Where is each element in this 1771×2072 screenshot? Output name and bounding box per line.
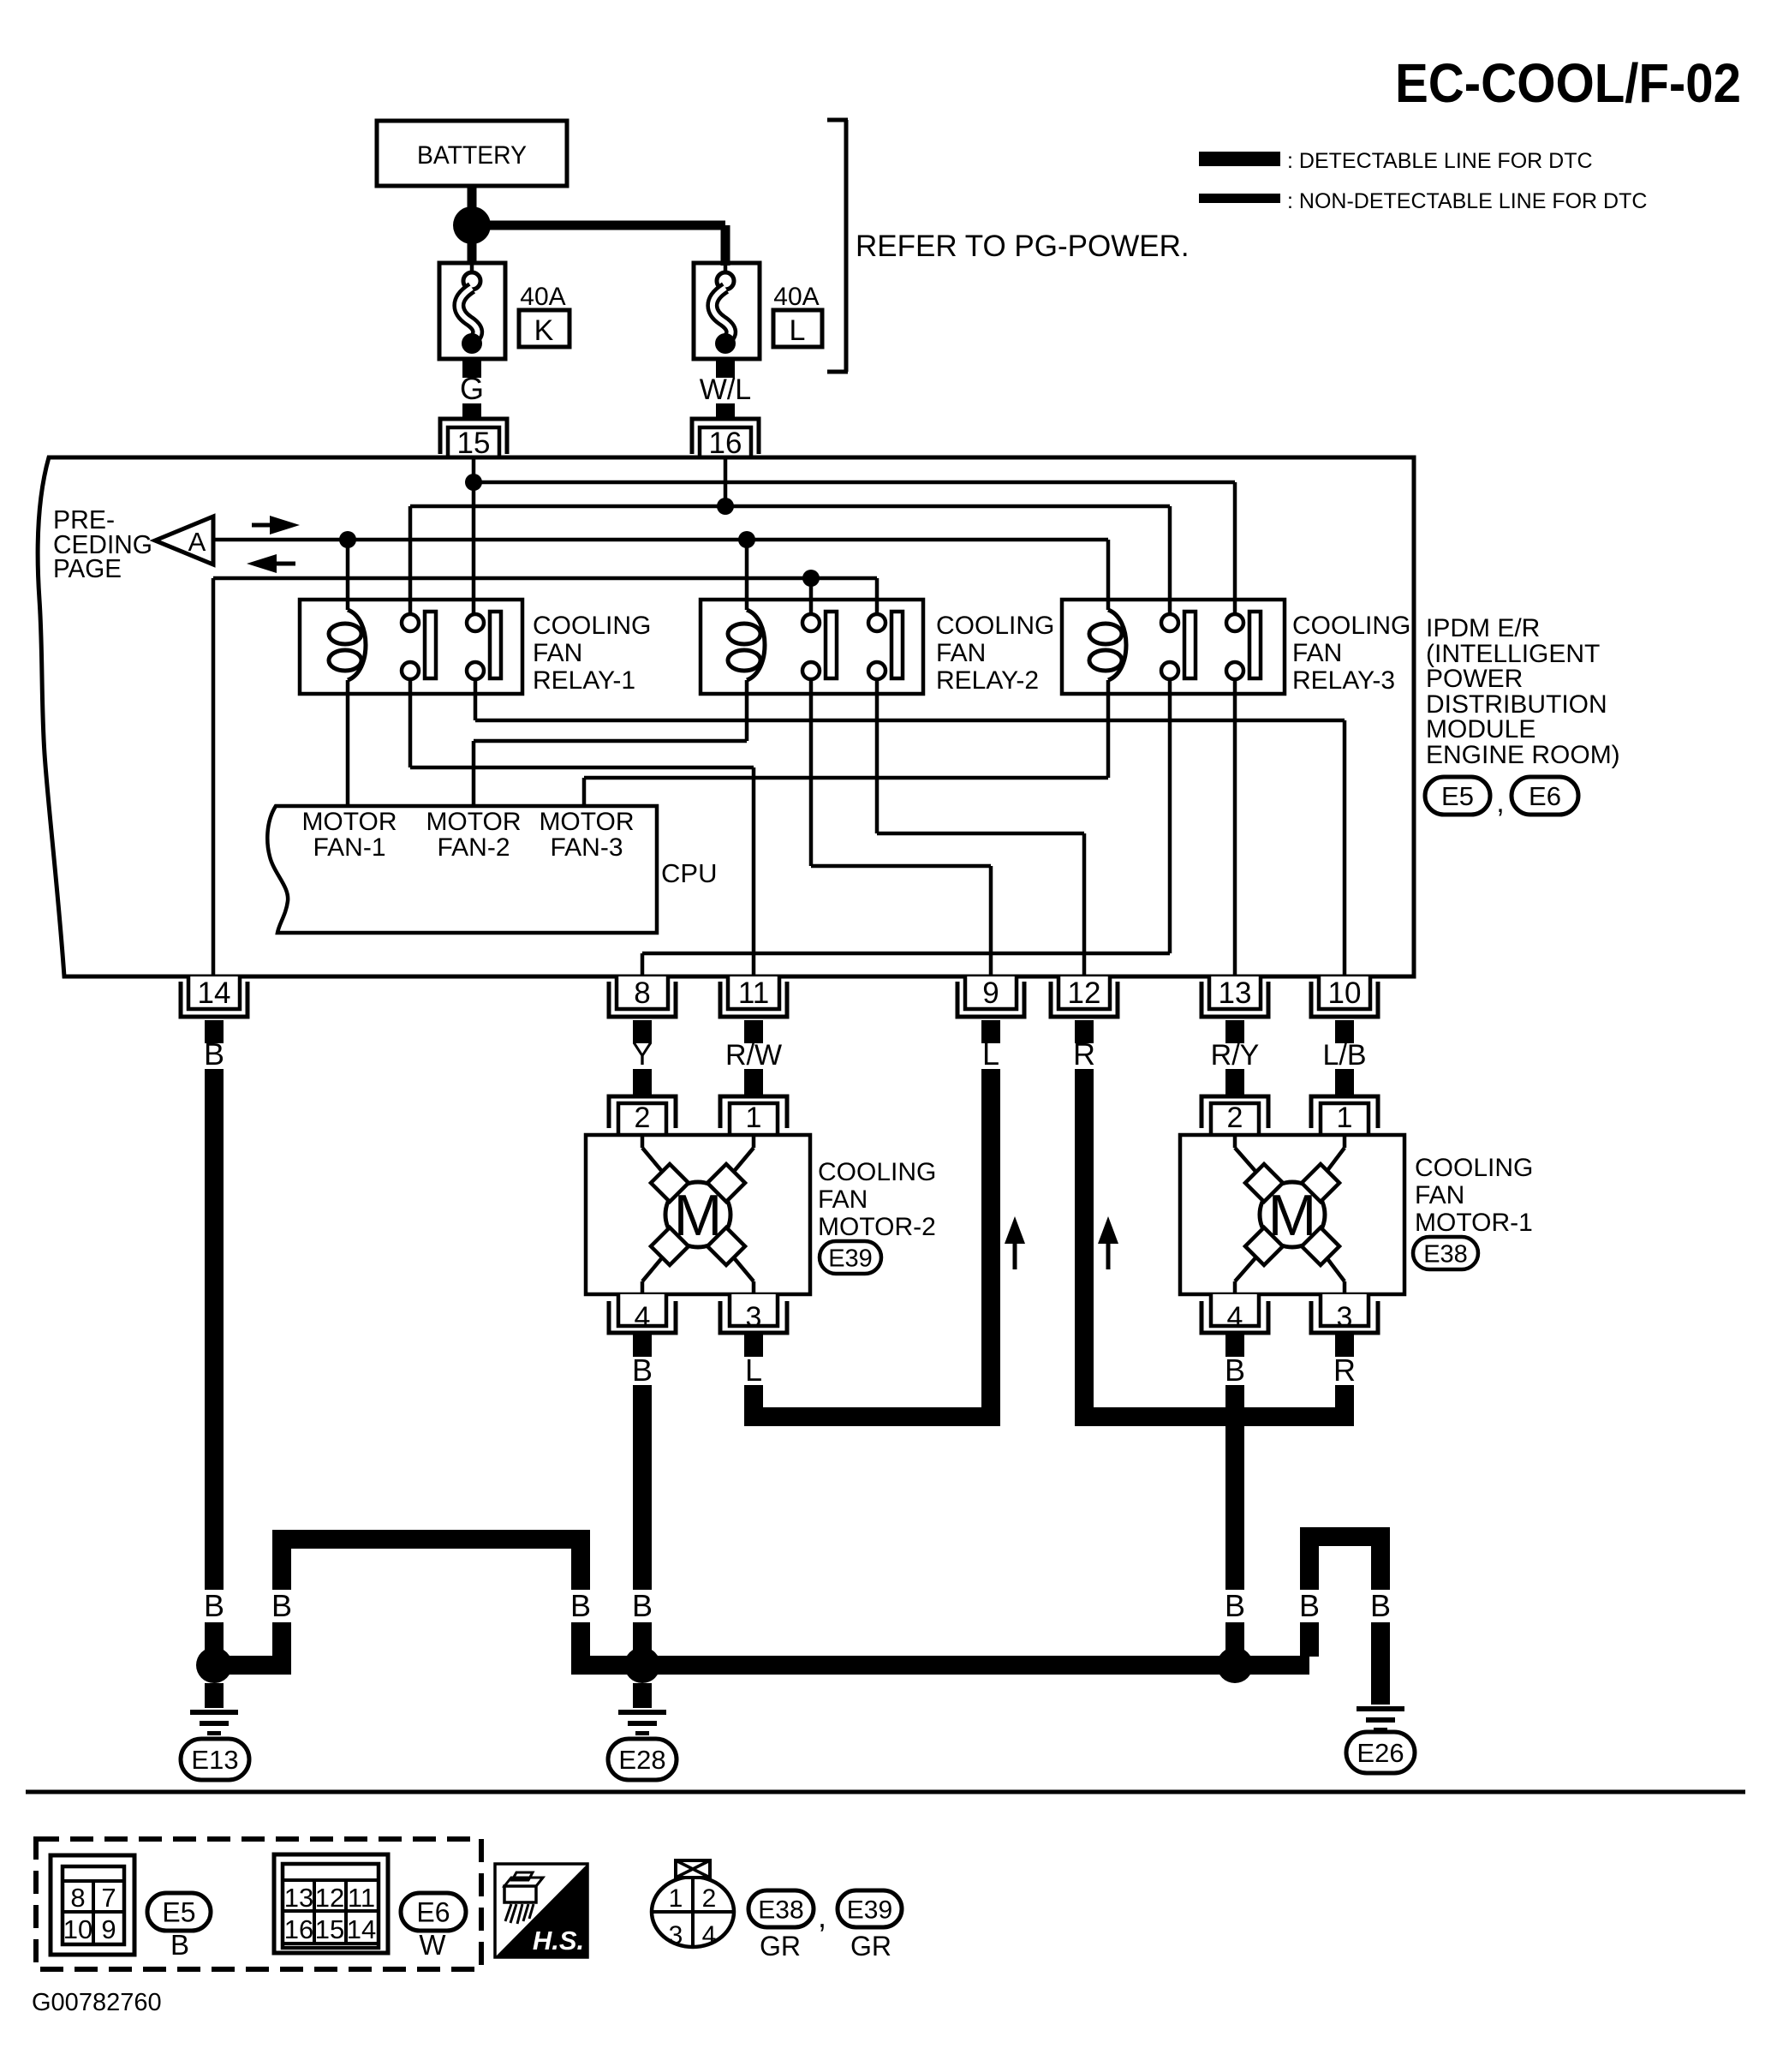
svg-text:Y: Y — [632, 1036, 653, 1072]
relay-1 coil — [329, 610, 366, 680]
wire Y pin 8 to motor-2 pin 2 — [633, 1069, 652, 1098]
label 40A (fusible link K) — [520, 283, 565, 311]
fusible link L — [694, 263, 760, 359]
relay-1 left contact — [402, 612, 436, 679]
label COOLING FAN MOTOR-1 — [1415, 1154, 1533, 1237]
svg-text:MOTOR: MOTOR — [539, 808, 634, 836]
wire rail from pin 16 (battery W/L feed) — [410, 458, 1170, 506]
svg-text:MOTOR: MOTOR — [426, 808, 521, 836]
wire B resume to E26 node — [1225, 1622, 1244, 1653]
svg-text:2: 2 — [635, 1102, 651, 1134]
node rail16 junction — [717, 498, 734, 515]
svg-text:B: B — [1299, 1588, 1320, 1623]
wire to ground E26 — [1371, 1622, 1390, 1705]
svg-text:PAGE: PAGE — [53, 553, 122, 583]
svg-text:B: B — [1370, 1588, 1391, 1623]
label COOLING FAN MOTOR-2 — [818, 1158, 936, 1241]
IPDM pin 8 connector — [609, 976, 676, 1017]
arrow right (to next page) — [252, 516, 300, 534]
svg-text:FAN: FAN — [1415, 1181, 1464, 1209]
ground bus E28 to E26 node — [642, 1656, 1235, 1675]
wire feed relay-2 right contact — [875, 578, 880, 615]
svg-text:11: 11 — [738, 976, 769, 1010]
label MOTOR FAN-1 — [301, 808, 397, 862]
motor COOLING FAN MOTOR-1 pin 1 connector — [1311, 1096, 1378, 1135]
relay COOLING FAN RELAY-1 box — [300, 600, 522, 694]
svg-text:12: 12 — [315, 1883, 344, 1913]
wire feed relay-2 coil — [745, 540, 749, 610]
svg-text:E28: E28 — [618, 1745, 665, 1775]
svg-text:3: 3 — [1337, 1301, 1353, 1334]
svg-text:12: 12 — [1068, 976, 1101, 1010]
svg-text:BATTERY: BATTERY — [417, 141, 527, 170]
motor COOLING FAN MOTOR-1 pin 2 connector — [1202, 1096, 1268, 1135]
connector ref E39 (motor-2) — [820, 1241, 881, 1274]
IPDM pin 14 connector — [181, 976, 247, 1017]
title EC-COOL/F-02 — [1395, 52, 1741, 114]
connector ref E6 (legend) — [401, 1893, 466, 1931]
svg-text:E5: E5 — [1441, 781, 1474, 811]
svg-text:R/Y: R/Y — [1211, 1039, 1260, 1072]
wire color label R/W (pin side) — [725, 1039, 782, 1072]
svg-text:MOTOR: MOTOR — [301, 808, 397, 836]
label B break (wire 14) — [204, 1588, 224, 1623]
box label K — [519, 310, 569, 347]
wire G (fuse K to pin 15) — [462, 359, 481, 421]
comma between E5 E6 — [1496, 786, 1504, 819]
legend detectable line for DTC — [1199, 149, 1593, 173]
wire R/Y pin 13 to motor-1 pin 2 — [1225, 1069, 1244, 1098]
svg-text:16: 16 — [284, 1914, 313, 1944]
svg-text:FAN-3: FAN-3 — [550, 833, 623, 862]
ground bus right — [1235, 1622, 1309, 1665]
svg-text:14: 14 — [198, 976, 231, 1010]
bracket refer note — [827, 120, 848, 372]
svg-text:FAN: FAN — [818, 1185, 868, 1214]
wire stub below motor pin (R) — [1335, 1335, 1354, 1357]
svg-text:B: B — [204, 1036, 224, 1072]
wire relay-1 coil to CPU MOTOR FAN-1 — [346, 680, 350, 806]
connector ref E5 (IPDM) — [1425, 777, 1490, 815]
wire relay-3 coil to CPU MOTOR FAN-3 — [584, 680, 1108, 806]
svg-text:,: , — [1496, 786, 1504, 819]
svg-text:4: 4 — [635, 1301, 651, 1334]
svg-text:CPU: CPU — [661, 858, 717, 888]
connector face E6 grid — [274, 1854, 388, 1953]
wire stub below pin 11 — [744, 1020, 763, 1043]
label B break (right riser 1) — [1299, 1588, 1320, 1623]
label GR (E38 color) — [760, 1931, 801, 1962]
svg-text:: DETECTABLE LINE FOR DTC: : DETECTABLE LINE FOR DTC — [1287, 149, 1593, 173]
svg-text:RELAY-2: RELAY-2 — [936, 666, 1039, 695]
svg-text:GR: GR — [850, 1931, 891, 1962]
fusible link K — [439, 263, 505, 359]
relay-3 left contact — [1161, 612, 1196, 679]
label B (E5 color) — [170, 1929, 189, 1961]
legend dashed box — [36, 1839, 481, 1969]
svg-text:MOTOR-2: MOTOR-2 — [818, 1213, 936, 1241]
svg-text:L: L — [745, 1352, 762, 1388]
relay-2 right contact — [868, 612, 903, 679]
svg-text:2: 2 — [702, 1884, 717, 1913]
relay-3 coil — [1089, 610, 1126, 680]
IPDM pin 13 connector — [1202, 976, 1268, 1017]
relay COOLING FAN RELAY-2 box — [701, 600, 923, 694]
wire color label R (motor side) — [1333, 1352, 1356, 1388]
wire L/B pin 10 to motor-1 pin 1 — [1335, 1069, 1354, 1098]
wire color label B (motor side) — [632, 1352, 653, 1388]
svg-text:COOLING: COOLING — [533, 612, 651, 640]
label W/L — [700, 373, 751, 406]
motor COOLING FAN MOTOR-2 pin 1 connector — [720, 1096, 787, 1135]
wire B resume to E13 node — [205, 1622, 224, 1653]
svg-text:W/L: W/L — [700, 373, 751, 406]
wire color label Y (pin side) — [632, 1036, 653, 1072]
svg-text:FAN-2: FAN-2 — [437, 833, 510, 862]
svg-text:R: R — [1333, 1352, 1356, 1388]
svg-text:COOLING: COOLING — [818, 1158, 936, 1186]
wire relay-2 coil to CPU MOTOR FAN-2 — [474, 680, 747, 806]
legend non-detectable line for DTC — [1199, 189, 1647, 213]
arrow left (from preceding page) — [247, 554, 295, 573]
svg-text:MODULE: MODULE — [1426, 715, 1535, 743]
IPDM pin 10 connector — [1311, 976, 1378, 1017]
svg-text:B: B — [1225, 1352, 1245, 1388]
wire L pin 9 to motor-2 pin 3 — [754, 1069, 991, 1417]
svg-text:B: B — [1225, 1588, 1245, 1623]
label COOLING FAN RELAY-3 — [1292, 612, 1410, 695]
connector ref E6 (IPDM) — [1512, 777, 1578, 815]
motor-1 pin 4 connector — [1202, 1294, 1268, 1334]
svg-text:3: 3 — [746, 1301, 762, 1334]
node coil rail junction at relay-2 — [738, 531, 755, 548]
wire stub below pin 12 — [1075, 1020, 1094, 1043]
ground symbol E28 — [618, 1683, 666, 1735]
ground ref E26 — [1346, 1732, 1415, 1773]
connector face E5 grid — [51, 1855, 134, 1955]
wire color label B (pin side) — [204, 1036, 224, 1072]
arrow up on wire R — [1098, 1216, 1118, 1269]
svg-text:RELAY-3: RELAY-3 — [1292, 666, 1395, 695]
node lower rail junction — [802, 570, 820, 587]
svg-text:9: 9 — [982, 976, 999, 1010]
ground symbol E26 — [1357, 1706, 1404, 1732]
svg-text:L/B: L/B — [1322, 1039, 1366, 1072]
wire stub below motor pin (B) — [1225, 1335, 1244, 1357]
IPDM pin 16 connector — [692, 419, 759, 460]
IPDM pin 11 connector — [720, 976, 787, 1017]
wire color label R/Y (pin side) — [1211, 1039, 1260, 1072]
label MOTOR FAN-2 — [426, 808, 521, 862]
svg-text:K: K — [534, 314, 554, 347]
label GR (E39 color) — [850, 1931, 891, 1962]
svg-text:REFER TO PG-POWER.: REFER TO PG-POWER. — [856, 230, 1190, 263]
ground ref E13 — [181, 1739, 249, 1780]
wire relay-3 right contact to pin 13 — [1233, 678, 1237, 976]
IPDM E/R module box — [38, 457, 1414, 976]
wire color label L (pin side) — [982, 1036, 999, 1072]
motor COOLING FAN MOTOR-2 — [586, 1135, 810, 1294]
svg-text:7: 7 — [101, 1883, 116, 1913]
battery B1 — [377, 121, 567, 186]
wire B motor-1 pin 4 down — [1225, 1385, 1244, 1590]
wire B from pin 14 down — [205, 1069, 224, 1590]
svg-text:FAN: FAN — [936, 639, 986, 667]
svg-text:B: B — [170, 1929, 189, 1961]
node rail15 junction — [465, 474, 482, 491]
svg-text:1: 1 — [746, 1102, 762, 1134]
wire battery to fusible links — [472, 186, 725, 266]
svg-text:E5: E5 — [162, 1897, 195, 1928]
svg-text:COOLING: COOLING — [936, 612, 1054, 640]
round connector face E38/E39 — [652, 1860, 734, 1950]
label G — [460, 371, 484, 406]
svg-text:H.S.: H.S. — [533, 1926, 584, 1956]
svg-text:40A: 40A — [520, 283, 565, 311]
relay-1 right contact — [467, 612, 501, 679]
svg-text:4: 4 — [1227, 1301, 1243, 1334]
svg-text:B: B — [271, 1588, 292, 1623]
label PRECEDING PAGE — [53, 505, 152, 583]
svg-text:E26: E26 — [1357, 1738, 1404, 1768]
svg-text:FAN: FAN — [533, 639, 582, 667]
label W (E6 color) — [419, 1929, 446, 1961]
wire stub below pin 10 — [1335, 1020, 1354, 1043]
wire color label L/B (pin side) — [1322, 1039, 1366, 1072]
label B break (left riser) — [271, 1588, 292, 1623]
wire feed relay-3 right contact — [1233, 482, 1237, 615]
wire stub below pin 14 — [205, 1020, 224, 1043]
wire R pin 12 to motor-1 pin 3 — [1084, 1069, 1345, 1417]
box label L — [773, 310, 822, 347]
label B break (motor-2 wire) — [632, 1588, 653, 1623]
node battery junction — [453, 206, 491, 244]
svg-text:9: 9 — [101, 1914, 116, 1944]
wire stub below pin 8 — [633, 1020, 652, 1043]
node ground E13 — [196, 1647, 232, 1683]
svg-text:E6: E6 — [416, 1897, 450, 1928]
wire W/L (fuse L to pin 16) — [716, 357, 735, 421]
svg-text:POWER: POWER — [1426, 665, 1523, 693]
svg-text:MOTOR-1: MOTOR-1 — [1415, 1209, 1533, 1237]
wire relay-1 right contact to pin 10 — [475, 678, 1345, 976]
motor COOLING FAN MOTOR-1 — [1180, 1135, 1404, 1294]
wire stub below pin 9 — [981, 1020, 1000, 1043]
IPDM pin 12 connector — [1051, 976, 1118, 1017]
svg-text:COOLING: COOLING — [1415, 1154, 1533, 1182]
motor-2 pin 4 connector — [609, 1294, 676, 1334]
wire relay-2 right contact to pin 12 — [877, 678, 1084, 976]
node ground E28 — [624, 1647, 660, 1683]
relay-2 left contact — [802, 612, 837, 679]
label IPDM E/R — [1426, 614, 1620, 769]
wire stub below motor pin (L) — [744, 1335, 763, 1357]
IPDM pin 9 connector — [957, 976, 1024, 1017]
wire relay-1 left contact to pin 11 — [410, 678, 754, 976]
svg-text:13: 13 — [1219, 976, 1252, 1010]
wire R/W pin 11 to motor-2 pin 1 — [744, 1069, 763, 1098]
svg-text:B: B — [632, 1352, 653, 1388]
label B break (motor-1 wire) — [1225, 1588, 1245, 1623]
svg-text:B: B — [204, 1588, 224, 1623]
wire color label L (motor side) — [745, 1352, 762, 1388]
svg-text:R: R — [1073, 1036, 1095, 1072]
comma between E38 E39 — [818, 1899, 826, 1934]
label CPU — [661, 858, 717, 888]
wire feed relay-3 left contact — [1168, 506, 1172, 615]
ground bus left — [214, 1539, 642, 1665]
label B break (right riser 2) — [1370, 1588, 1391, 1623]
arrow up on wire L — [1005, 1216, 1025, 1269]
svg-text:E38: E38 — [758, 1896, 803, 1924]
svg-text:15: 15 — [457, 427, 491, 460]
wire relay-3 left contact to pin 8 — [642, 678, 1170, 976]
wire B motor-2 pin 4 down — [633, 1385, 652, 1590]
relay COOLING FAN RELAY-3 box — [1062, 600, 1285, 694]
wire color label R (pin side) — [1073, 1036, 1095, 1072]
svg-text:COOLING: COOLING — [1292, 612, 1410, 640]
svg-text:: NON-DETECTABLE LINE FOR DTC: : NON-DETECTABLE LINE FOR DTC — [1287, 189, 1647, 213]
svg-text:14: 14 — [347, 1914, 376, 1944]
wire stub below motor pin (B) — [633, 1335, 652, 1357]
connector A triangle — [155, 517, 213, 564]
motor-2 pin 3 connector — [720, 1294, 787, 1334]
svg-text:8: 8 — [634, 976, 650, 1010]
wire B resume to E28 node — [633, 1622, 652, 1653]
ground symbol E13 — [190, 1683, 238, 1735]
ground ref E28 — [608, 1739, 677, 1780]
svg-text:RELAY-1: RELAY-1 — [533, 666, 635, 695]
wire rail A (coil supply) — [213, 538, 1108, 542]
svg-text:,: , — [818, 1899, 826, 1934]
connector ref E38 (motor-1) — [1413, 1237, 1478, 1269]
svg-text:40A: 40A — [773, 283, 819, 311]
wire rail from pin 15 (battery G feed) — [474, 458, 1235, 482]
svg-text:10: 10 — [63, 1914, 92, 1944]
label MOTOR FAN-3 — [539, 808, 634, 862]
svg-text:E39: E39 — [828, 1245, 873, 1272]
svg-text:G: G — [460, 371, 484, 406]
svg-text:GR: GR — [760, 1931, 801, 1962]
motor COOLING FAN MOTOR-2 pin 2 connector — [609, 1096, 676, 1135]
svg-text:L: L — [790, 314, 806, 347]
svg-text:1: 1 — [669, 1884, 683, 1913]
separator line — [26, 1790, 1745, 1794]
label 40A (fusible link L) — [773, 283, 819, 311]
label B break (mid riser) — [570, 1588, 591, 1623]
svg-text:16: 16 — [709, 427, 742, 460]
svg-text:EC-COOL/F-02: EC-COOL/F-02 — [1395, 52, 1741, 114]
motor-1 pin 3 connector — [1311, 1294, 1378, 1334]
svg-text:8: 8 — [70, 1883, 85, 1913]
svg-text:E6: E6 — [1529, 781, 1561, 811]
wire relay-2 left contact to pin 9 — [811, 678, 991, 976]
svg-text:W: W — [419, 1929, 446, 1961]
svg-text:R/W: R/W — [725, 1039, 782, 1072]
svg-text:10: 10 — [1328, 976, 1362, 1010]
wire feed relay-3 coil — [1106, 540, 1111, 610]
svg-text:FAN: FAN — [1292, 639, 1342, 667]
svg-text:11: 11 — [348, 1883, 375, 1913]
svg-text:B: B — [570, 1588, 591, 1623]
svg-text:B: B — [632, 1588, 653, 1623]
relay-3 right contact — [1226, 612, 1261, 679]
H.S. detail box — [495, 1864, 587, 1957]
relay-2 coil — [728, 610, 765, 680]
svg-text:E13: E13 — [191, 1745, 238, 1775]
note REFER TO PG-POWER. — [856, 230, 1190, 263]
svg-text:15: 15 — [315, 1914, 344, 1944]
wire color label B (motor side) — [1225, 1352, 1245, 1388]
wire feed relay-1 right contact — [472, 482, 476, 615]
svg-text:FAN-1: FAN-1 — [313, 833, 385, 862]
svg-text:E39: E39 — [847, 1896, 892, 1924]
node ground E26 junction — [1217, 1647, 1253, 1683]
node coil rail junction at relay-1 — [339, 531, 356, 548]
svg-text:1: 1 — [1337, 1102, 1353, 1134]
svg-text:4: 4 — [702, 1921, 717, 1950]
CPU box — [267, 806, 657, 933]
label COOLING FAN RELAY-1 — [533, 612, 651, 695]
label COOLING FAN RELAY-2 — [936, 612, 1054, 695]
wire feed relay-1 coil — [346, 540, 350, 610]
wire feed relay-2 left contact — [809, 578, 814, 615]
svg-text:3: 3 — [669, 1921, 683, 1950]
svg-text:2: 2 — [1227, 1102, 1243, 1134]
svg-text:ENGINE ROOM): ENGINE ROOM) — [1426, 741, 1620, 769]
svg-text:G00782760: G00782760 — [32, 1989, 162, 2016]
svg-text:A: A — [188, 527, 206, 557]
connector ref E5 (legend) — [147, 1893, 211, 1931]
wire stub below pin 13 — [1225, 1020, 1244, 1043]
svg-text:13: 13 — [284, 1883, 313, 1913]
svg-text:L: L — [982, 1036, 999, 1072]
ground bus right upper — [1309, 1537, 1380, 1590]
wire feed relay-1 left contact — [408, 506, 413, 615]
connector ref E38 (legend) — [748, 1890, 814, 1927]
connector ref E39 (legend) — [838, 1890, 902, 1927]
svg-text:IPDM E/R: IPDM E/R — [1426, 614, 1540, 642]
svg-text:E38: E38 — [1423, 1240, 1468, 1268]
wire rail lower (contact supply) — [213, 578, 877, 976]
IPDM pin 15 connector — [440, 419, 507, 460]
part number — [32, 1989, 162, 2016]
